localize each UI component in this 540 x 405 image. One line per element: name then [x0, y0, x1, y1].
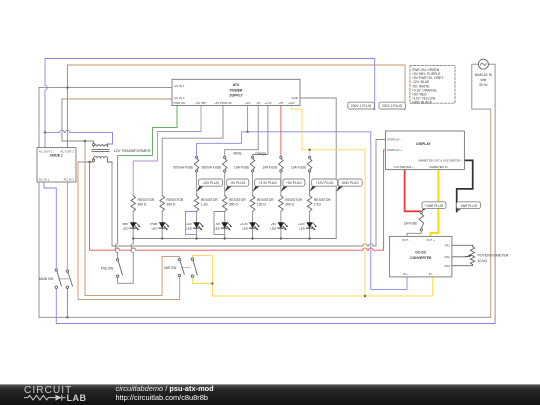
wire: fuse5 to resistor col 7 — [309, 172, 311, 195]
svg-text:-5V: -5V — [256, 101, 261, 105]
svg-text:RESISTOR: RESISTOR — [229, 198, 246, 202]
svg-text:RESISTOR: RESISTOR — [285, 198, 302, 202]
wire: black AMMETER OUT & VOLTMETER - to -VAR plug — [457, 160, 473, 211]
wire: blue loop beside -12V LED — [186, 212, 197, 235]
wire: grey jog to AC source left stub — [472, 64, 491, 109]
legend note box (wire colour key) — [410, 66, 455, 105]
fuse F6 2A FUSE — [404, 211, 424, 231]
svg-text:+5V: +5V — [278, 101, 283, 105]
svg-text:1 kΩ: 1 kΩ — [314, 203, 321, 207]
svg-text:390 Ω: 390 Ω — [167, 203, 176, 207]
svg-text:RESISTOR: RESISTOR — [257, 198, 274, 202]
svg-text:Orange: Orange — [255, 152, 266, 156]
wire: fuse4 to resistor col 6 — [280, 172, 282, 195]
svg-text:CONVERTER: CONVERTER — [410, 256, 432, 260]
svg-text:LED: LED — [214, 226, 221, 230]
svg-text:+12V: +12V — [298, 222, 306, 226]
svg-text:390 Ω: 390 Ω — [285, 203, 294, 207]
wire: fuse2 to resistor col 4 — [224, 172, 226, 195]
svg-text:PA3: PA3 — [445, 264, 451, 268]
node NODE 1 — [37, 148, 76, 182]
svg-text:VAR SW: VAR SW — [164, 266, 176, 270]
svg-text:AMMETER OUT & VOLTMETER -: AMMETER OUT & VOLTMETER - — [418, 159, 462, 163]
svg-text:LED: LED — [242, 226, 249, 230]
wire: tan rail y=99 to ATX AC IN 2 — [62, 98, 172, 100]
svg-text:GND: BLACK: GND: BLACK — [412, 101, 433, 105]
LED D3 -12V LED — [185, 211, 203, 238]
svg-text:+5V SBY: +5V SBY — [195, 101, 207, 105]
fuse F5 10A FUSE — [291, 156, 312, 172]
flag +VAR PLUG — [421, 202, 446, 211]
svg-text:390 Ω: 390 Ω — [229, 203, 238, 207]
svg-text:GND PLUG: GND PLUG — [342, 181, 360, 185]
svg-text:130 Ω: 130 Ω — [257, 203, 266, 207]
display module DISPLAY — [385, 131, 464, 170]
svg-text:OUT -: OUT - — [402, 238, 410, 242]
svg-text:LED: LED — [152, 226, 159, 230]
resistor R4 390 (-5V) — [222, 196, 246, 212]
wire: transformer primary left link — [62, 141, 94, 147]
wire: grey display return rail from transformer secondary right to DISPLAY - — [112, 140, 385, 247]
svg-text:LED: LED — [123, 226, 130, 230]
svg-text:-VAR PLUG: -VAR PLUG — [460, 204, 478, 208]
svg-text:OUT +: OUT + — [426, 238, 435, 242]
svg-text:+VAR PLUG: +VAR PLUG — [425, 204, 444, 208]
wire: grey net AC OUT2 to ATX AC IN 1 — [39, 87, 172, 89]
wire: blue branch to transformer primary right (hops at x=62 and x=67.4) — [45, 130, 113, 144]
wire: MAIN SW pole2 bottom rail to mains — [39, 288, 491, 317]
resistor R7 1k (+12V) — [307, 196, 331, 212]
wire: yellow +12V from ATX, across to VAR feed riser — [291, 106, 365, 296]
svg-text:MAIN AC IN: MAIN AC IN — [475, 73, 493, 77]
svg-text:PSU SW: PSU SW — [101, 266, 114, 270]
wire: AC OUT 1 blue riser from NODE 1 top, top rail to 230V 1 plug — [45, 59, 375, 148]
fuse F2 500mA FUSE — [202, 156, 227, 172]
wire: red display supply rail from transformer secondary to DISPLAY + — [90, 150, 386, 250]
svg-text:NODE 1: NODE 1 — [50, 154, 63, 158]
wire: yellow VAR SW pole2 top riser — [192, 256, 212, 296]
converter module DC-DC CONVERTER — [390, 236, 452, 277]
svg-text:50 Hz: 50 Hz — [479, 83, 488, 87]
wire: tan drop x=85 to VAR SW pole1 top rail — [85, 141, 179, 295]
wire: tan mains left vertical — [490, 109, 492, 317]
fuse F4 10A FUSE — [262, 156, 283, 172]
wire: blue -12V jog left to 500mA fuse 1 — [197, 132, 248, 156]
LED D7 +12V LED — [298, 211, 317, 238]
footer text — [116, 384, 215, 402]
flag -12V PLUG — [197, 179, 223, 192]
footer banner — [0, 384, 540, 405]
wire: fuse3 to resistor col 5 — [252, 172, 254, 195]
power supply unit ATX POWER SUPPLY — [172, 79, 300, 105]
LED D4 -5V LED — [214, 211, 232, 238]
LED D6 +5V LED — [270, 211, 288, 238]
svg-text:IN +: IN + — [403, 272, 409, 276]
svg-text:GND: GND — [291, 96, 299, 100]
switch MAIN SW (DPST) — [39, 269, 72, 289]
svg-text:PA1: PA1 — [445, 243, 451, 247]
svg-text:DISPLAY -: DISPLAY - — [387, 138, 401, 142]
flag +12V PLUG — [310, 179, 338, 192]
wire: yellow drop to 10A fuse 5 — [309, 150, 311, 156]
svg-text:-5V: -5V — [215, 222, 221, 226]
svg-text:500mA FUSE: 500mA FUSE — [173, 165, 194, 169]
wire: yellow VAR SW pole2 bottom stub — [192, 277, 212, 283]
svg-text:2A FUSE: 2A FUSE — [404, 221, 418, 225]
svg-text:+5V PLUG: +5V PLUG — [286, 181, 302, 185]
wire: NODE1 AC IN 1 to MAIN SW pole1 — [44, 182, 56, 269]
svg-text:500mA FUSE: 500mA FUSE — [202, 165, 223, 169]
wire: fuse1 to resistor col 3 — [196, 172, 198, 195]
svg-text:PWR ON: PWR ON — [174, 101, 186, 105]
svg-text:IN -: IN - — [429, 272, 434, 276]
svg-text:RESISTOR: RESISTOR — [167, 198, 184, 202]
svg-text:LED: LED — [186, 226, 193, 230]
svg-text:10A FUSE: 10A FUSE — [262, 165, 278, 169]
potentiometer 10 kΩ — [452, 245, 509, 265]
LED D5 +3.3V LED — [240, 211, 260, 238]
svg-text:RESISTOR: RESISTOR — [314, 198, 331, 202]
svg-text:AC IN 1: AC IN 1 — [174, 84, 185, 88]
svg-text:+5V PWR OK: +5V PWR OK — [214, 101, 232, 105]
wire: AC OUT 2 tan top rail to 230V 2 plug — [67, 65, 405, 110]
svg-text:RESISTOR: RESISTOR — [201, 198, 218, 202]
flag +3.3V PLUG — [253, 179, 281, 192]
wire: thick yellow DISPLAY AMMETER IN to DC-DC OUT+ — [431, 170, 439, 237]
svg-text:White: White — [233, 152, 242, 156]
LED D1 SBY LED — [122, 211, 140, 238]
svg-text:PA2: PA2 — [445, 255, 451, 259]
wire: red +5V drop from ATX to 10A fuse 4 — [280, 106, 282, 156]
wire: grey loop beside -5V LED — [214, 212, 225, 235]
svg-text:+5V: +5V — [271, 222, 278, 226]
wire: AC OUT 2 riser from NODE 1 top — [66, 65, 68, 148]
resistor R6 390 (+5V) — [279, 196, 303, 212]
resistor R5 130 (+3.3V) — [250, 196, 274, 212]
svg-text:circuitlabdemo / psu-atx-mod: circuitlabdemo / psu-atx-mod — [116, 384, 215, 393]
wire: grey mains right vertical to AC source right stub — [488, 64, 495, 323]
wire: purple +5V SBY from ATX to SBY resistor — [133, 106, 201, 196]
switch VAR SW (DPST) — [164, 258, 197, 277]
wire: 2A fuse to DC-DC OUT- — [407, 231, 421, 237]
wire: +3.3V (Orange) wire from ATX to 10A fuse 3 — [253, 106, 268, 156]
svg-text:CIRCUIT: CIRCUIT — [24, 385, 72, 396]
flag +5V PLUG — [281, 179, 305, 192]
wire: MAIN SW pole1 bottom blue rail to mains — [56, 288, 495, 323]
svg-text:-12V: -12V — [185, 222, 192, 226]
wire: GND net from ATX GND pin down to LED cathode rail — [133, 98, 336, 239]
wire: grey vertical x=39 down to bottom switch rail — [38, 88, 40, 318]
svg-text:RESISTOR: RESISTOR — [138, 198, 155, 202]
wire: blue -12V rail right to DC-DC IN+ — [248, 132, 407, 290]
voltage source MAIN AC IN — [475, 59, 493, 87]
flag GND PLUG — [336, 179, 362, 192]
svg-text:VOLTMETER +: VOLTMETER + — [394, 165, 414, 169]
svg-text:-12V: -12V — [245, 101, 251, 105]
svg-text:LED: LED — [270, 226, 277, 230]
switch PSU SW — [101, 259, 123, 278]
wire: NODE1 AC IN 2 to MAIN SW pole2 — [66, 182, 68, 270]
svg-text:sine: sine — [480, 78, 486, 82]
wire: green PWR ON from ATX to PSU SW — [115, 106, 177, 259]
svg-text:10A FUSE: 10A FUSE — [291, 165, 307, 169]
svg-text:+3.3V: +3.3V — [264, 101, 272, 105]
svg-text:POWER: POWER — [230, 88, 243, 92]
svg-text:230V 2 PLUG: 230V 2 PLUG — [382, 104, 403, 108]
svg-text:-5V PLUG: -5V PLUG — [230, 181, 245, 185]
svg-text:SBY: SBY — [122, 222, 128, 226]
LED D2 PWR LED — [150, 211, 169, 238]
svg-text:AC IN 2: AC IN 2 — [64, 177, 75, 181]
svg-text:+12V PLUG: +12V PLUG — [316, 181, 334, 185]
svg-text:DISPLAY +: DISPLAY + — [387, 148, 402, 152]
svg-text:AC IN 2: AC IN 2 — [174, 96, 185, 100]
svg-text:http://circuitlab.com/c8u8r8b: http://circuitlab.com/c8u8r8b — [116, 393, 208, 402]
flag 230V 1 PLUG — [348, 102, 375, 110]
svg-text:DC-DC: DC-DC — [415, 251, 426, 255]
wire: tan drop x=78 to VAR SW pole1 bottom rail — [78, 162, 180, 300]
svg-text:POTENTIOMETER: POTENTIOMETER — [478, 253, 509, 257]
svg-text:PWR: PWR — [150, 222, 158, 226]
svg-text:12V TRANSFORMER: 12V TRANSFORMER — [114, 149, 151, 153]
wire: transformer secondary left link — [78, 158, 94, 162]
wire: PSU SW bottom return to GND rail — [118, 239, 134, 284]
flag -5V PLUG — [225, 179, 249, 192]
svg-text:MAIN SW: MAIN SW — [39, 277, 53, 281]
wire: blue -12V drop from ATX — [247, 106, 249, 132]
wire: thick red VOLTMETER + to 2A fuse — [405, 170, 420, 212]
svg-text:1 kΩ: 1 kΩ — [201, 203, 208, 207]
fuse F1 500mA FUSE — [173, 156, 198, 172]
svg-text:10A FUSE: 10A FUSE — [234, 165, 250, 169]
wire: -5V (White) wire from ATX to 500mA fuse 2 — [225, 106, 259, 156]
svg-text:390 Ω: 390 Ω — [138, 203, 147, 207]
wire: vertical x=62 down to transformer link — [61, 99, 63, 141]
svg-text:AC IN 1: AC IN 1 — [39, 177, 50, 181]
svg-text:ATX: ATX — [233, 83, 240, 87]
resistor R1 390 (SBY) — [131, 196, 155, 212]
svg-text:LAB: LAB — [67, 393, 87, 403]
wire: yellow bottom rail to DC-DC IN- — [212, 277, 432, 296]
fuse F3 10A FUSE — [234, 156, 255, 172]
svg-text:-12V PLUG: -12V PLUG — [202, 181, 219, 185]
wire: grey +5V PWR OK from ATX to PWR resistor — [162, 106, 223, 196]
CircuitLab logo — [24, 385, 87, 403]
svg-text:AMMETER IN: AMMETER IN — [429, 165, 447, 169]
svg-text:DISPLAY: DISPLAY — [416, 142, 431, 146]
svg-text:+3.3V: +3.3V — [240, 222, 249, 226]
svg-text:+3.3V PLUG: +3.3V PLUG — [258, 181, 277, 185]
resistor R3 1k (-12V) — [194, 196, 218, 212]
svg-text:10 kΩ: 10 kΩ — [478, 259, 488, 263]
svg-text:230V 1 PLUG: 230V 1 PLUG — [351, 104, 372, 108]
svg-text:LED: LED — [299, 226, 306, 230]
svg-text:+12V: +12V — [288, 101, 295, 105]
transformer T1 12V TRANSFORMER — [92, 143, 151, 162]
resistor R2 390 (PWR) — [160, 196, 184, 212]
svg-text:SUPPLY: SUPPLY — [229, 94, 243, 98]
flag 230V 2 PLUG — [379, 102, 406, 110]
flag -VAR PLUG — [457, 202, 481, 212]
